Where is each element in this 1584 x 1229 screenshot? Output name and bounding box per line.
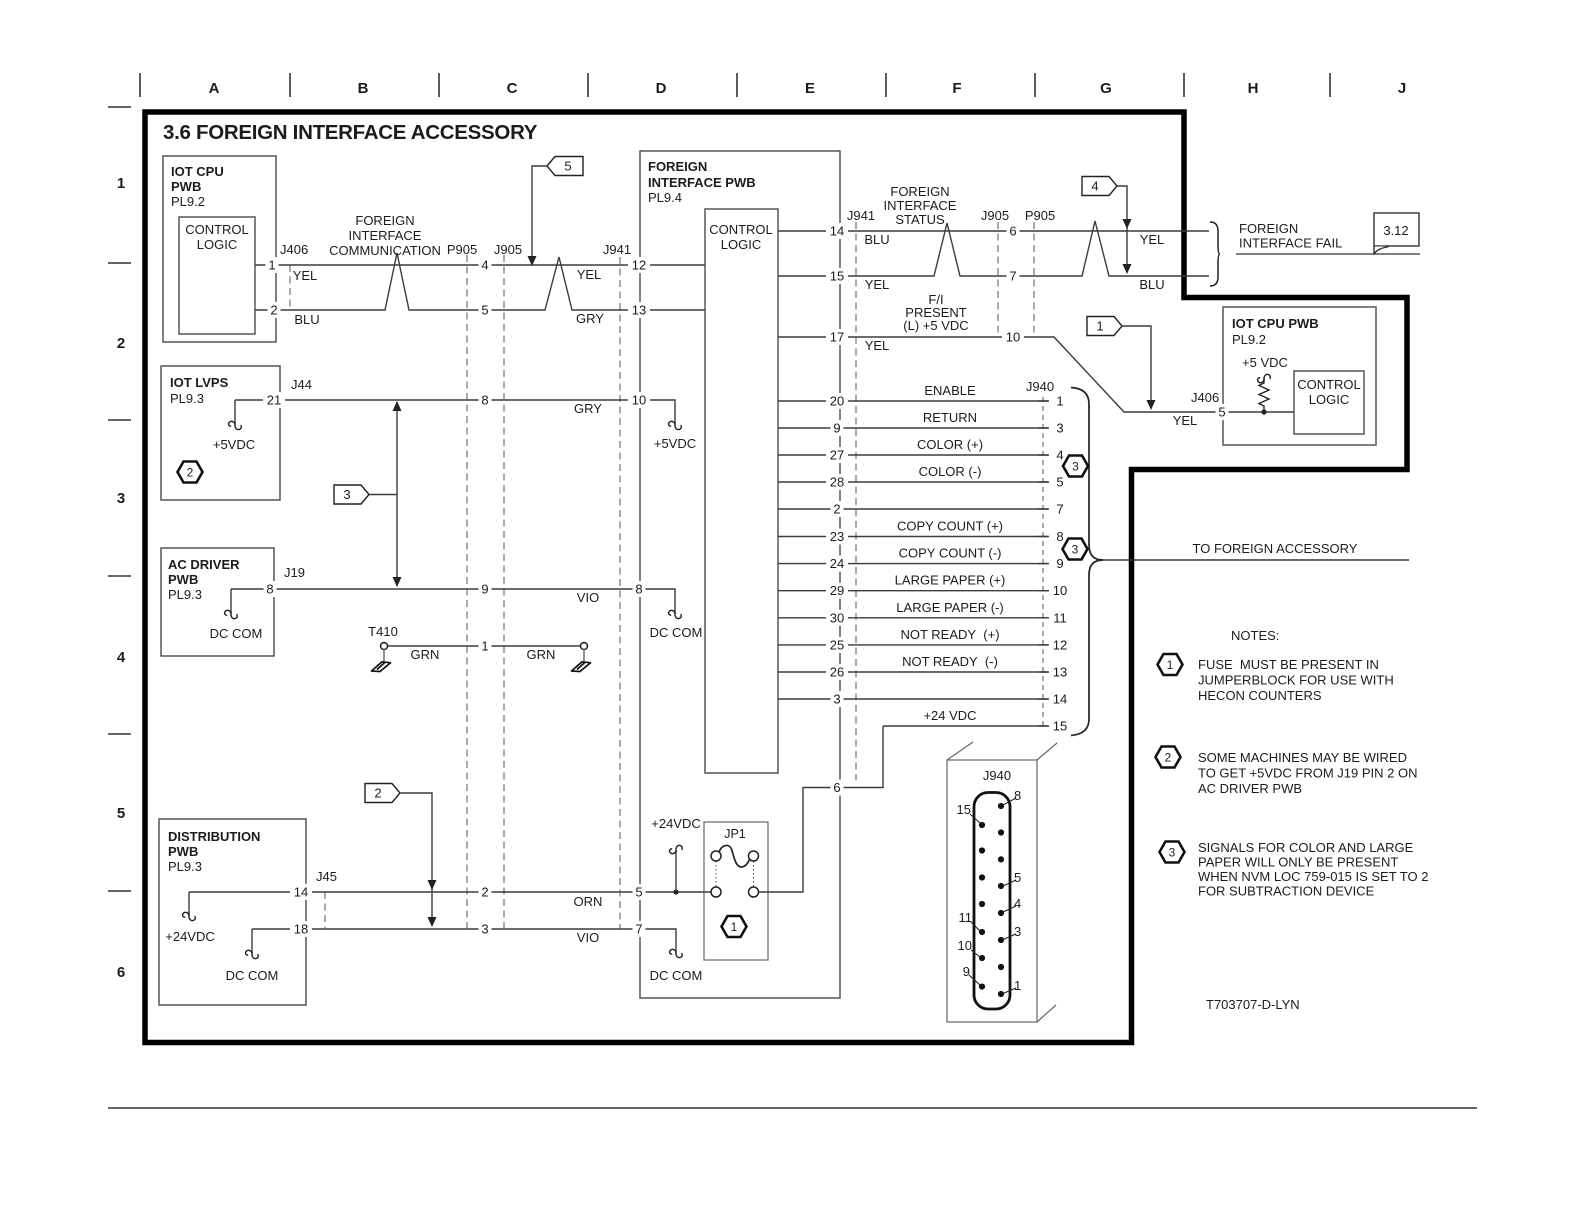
svg-text:GRN: GRN <box>527 647 556 662</box>
svg-text:1: 1 <box>1096 319 1103 334</box>
svg-text:INTERFACE FAIL: INTERFACE FAIL <box>1239 236 1342 251</box>
svg-text:WHEN NVM LOC 759-015 IS SET TO: WHEN NVM LOC 759-015 IS SET TO 2 <box>1198 869 1428 884</box>
svg-text:7: 7 <box>1009 269 1016 284</box>
svg-text:1: 1 <box>1167 658 1174 672</box>
svg-text:J941: J941 <box>603 242 631 257</box>
svg-text:+24 VDC: +24 VDC <box>923 708 976 723</box>
svg-text:2: 2 <box>187 466 194 480</box>
svg-text:J905: J905 <box>494 242 522 257</box>
svg-text:J941: J941 <box>847 208 875 223</box>
svg-text:24: 24 <box>830 556 844 571</box>
svg-text:+5VDC: +5VDC <box>213 437 255 452</box>
svg-text:BLU: BLU <box>1139 277 1164 292</box>
svg-text:3: 3 <box>1072 460 1079 474</box>
svg-text:PL9.3: PL9.3 <box>168 859 202 874</box>
svg-text:23: 23 <box>830 529 844 544</box>
svg-text:4: 4 <box>1091 179 1098 194</box>
svg-text:+5VDC: +5VDC <box>654 436 696 451</box>
svg-text:1: 1 <box>117 175 125 192</box>
svg-text:FOREIGN: FOREIGN <box>1239 221 1298 236</box>
svg-text:26: 26 <box>830 665 844 680</box>
svg-text:JP1: JP1 <box>724 827 746 841</box>
svg-text:CONTROL: CONTROL <box>709 222 773 237</box>
svg-text:BLU: BLU <box>864 232 889 247</box>
svg-text:SIGNALS FOR COLOR AND LARGE: SIGNALS FOR COLOR AND LARGE <box>1198 840 1414 855</box>
svg-text:J406: J406 <box>280 242 308 257</box>
svg-text:4: 4 <box>1056 448 1063 463</box>
svg-text:T703707-D-LYN: T703707-D-LYN <box>1206 997 1300 1012</box>
svg-text:J19: J19 <box>284 565 305 580</box>
svg-text:25: 25 <box>830 637 844 652</box>
svg-text:FOREIGN: FOREIGN <box>355 213 414 228</box>
svg-text:INTERFACE: INTERFACE <box>884 198 957 213</box>
svg-text:D: D <box>656 80 667 97</box>
svg-text:9: 9 <box>481 582 488 597</box>
svg-text:FUSE MUST BE PRESENT IN: FUSE MUST BE PRESENT IN <box>1198 657 1379 672</box>
svg-text:5: 5 <box>1014 870 1021 885</box>
svg-text:12: 12 <box>1053 637 1067 652</box>
svg-text:INTERFACE: INTERFACE <box>349 228 422 243</box>
svg-text:27: 27 <box>830 448 844 463</box>
svg-text:4: 4 <box>117 649 126 666</box>
svg-text:6: 6 <box>833 780 840 795</box>
svg-text:3: 3 <box>1014 924 1021 939</box>
svg-text:8: 8 <box>481 393 488 408</box>
svg-text:PL9.3: PL9.3 <box>170 391 204 406</box>
svg-text:18: 18 <box>294 922 308 937</box>
svg-text:NOT READY (+): NOT READY (+) <box>900 627 999 642</box>
svg-text:15: 15 <box>957 802 971 817</box>
svg-text:1: 1 <box>1056 394 1063 409</box>
svg-text:13: 13 <box>1053 665 1067 680</box>
svg-text:2: 2 <box>481 885 488 900</box>
svg-text:ENABLE: ENABLE <box>924 383 976 398</box>
svg-text:NOTES:: NOTES: <box>1231 628 1279 643</box>
svg-text:YEL: YEL <box>577 267 602 282</box>
svg-text:10: 10 <box>1053 583 1067 598</box>
svg-text:8: 8 <box>266 582 273 597</box>
svg-text:HECON COUNTERS: HECON COUNTERS <box>1198 688 1322 703</box>
svg-text:3: 3 <box>117 490 125 507</box>
svg-text:+24VDC: +24VDC <box>651 816 701 831</box>
svg-text:6: 6 <box>1009 224 1016 239</box>
svg-text:10: 10 <box>958 938 972 953</box>
svg-text:1: 1 <box>1014 978 1021 993</box>
svg-text:PL9.4: PL9.4 <box>648 190 682 205</box>
svg-text:LOGIC: LOGIC <box>197 237 237 252</box>
svg-text:E: E <box>805 80 815 97</box>
svg-text:4: 4 <box>1014 896 1021 911</box>
svg-text:J: J <box>1398 80 1406 97</box>
svg-text:2: 2 <box>374 786 381 801</box>
svg-text:COPY COUNT (+): COPY COUNT (+) <box>897 519 1003 534</box>
svg-text:PWB: PWB <box>168 844 198 859</box>
svg-text:P905: P905 <box>1025 208 1055 223</box>
svg-text:14: 14 <box>830 224 844 239</box>
svg-text:3: 3 <box>343 487 350 502</box>
svg-text:AC DRIVER PWB: AC DRIVER PWB <box>1198 781 1302 796</box>
svg-text:+5 VDC: +5 VDC <box>1242 355 1288 370</box>
svg-text:5: 5 <box>635 885 642 900</box>
svg-text:J905: J905 <box>981 208 1009 223</box>
svg-text:PL9.3: PL9.3 <box>168 587 202 602</box>
svg-text:15: 15 <box>830 269 844 284</box>
svg-text:13: 13 <box>632 303 646 318</box>
svg-text:VIO: VIO <box>577 930 599 945</box>
svg-text:9: 9 <box>833 421 840 436</box>
svg-text:8: 8 <box>635 582 642 597</box>
svg-text:28: 28 <box>830 475 844 490</box>
svg-text:4: 4 <box>481 258 488 273</box>
svg-text:VIO: VIO <box>577 590 599 605</box>
svg-text:TO FOREIGN ACCESSORY: TO FOREIGN ACCESSORY <box>1193 541 1358 556</box>
svg-text:21: 21 <box>267 393 281 408</box>
svg-text:NOT READY (-): NOT READY (-) <box>902 654 998 669</box>
svg-text:YEL: YEL <box>865 338 890 353</box>
svg-text:DISTRIBUTION: DISTRIBUTION <box>168 829 260 844</box>
svg-text:BLU: BLU <box>294 312 319 327</box>
svg-text:YEL: YEL <box>1173 413 1198 428</box>
svg-text:PL9.2: PL9.2 <box>171 194 205 209</box>
svg-text:H: H <box>1248 80 1259 97</box>
svg-text:AC DRIVER: AC DRIVER <box>168 557 240 572</box>
svg-text:C: C <box>507 80 518 97</box>
svg-text:PL9.2: PL9.2 <box>1232 332 1266 347</box>
svg-text:J44: J44 <box>291 377 312 392</box>
svg-text:2: 2 <box>1165 751 1172 765</box>
svg-text:7: 7 <box>635 922 642 937</box>
svg-text:LARGE PAPER (-): LARGE PAPER (-) <box>896 600 1003 615</box>
svg-text:YEL: YEL <box>865 277 890 292</box>
svg-text:IOT LVPS: IOT LVPS <box>170 375 229 390</box>
svg-text:SOME MACHINES MAY BE WIRED: SOME MACHINES MAY BE WIRED <box>1198 750 1407 765</box>
svg-text:A: A <box>209 80 220 97</box>
svg-text:DC COM: DC COM <box>650 968 703 983</box>
svg-text:LARGE PAPER (+): LARGE PAPER (+) <box>895 573 1006 588</box>
svg-text:T410: T410 <box>368 624 398 639</box>
svg-text:10: 10 <box>632 393 646 408</box>
svg-text:15: 15 <box>1053 719 1067 734</box>
svg-text:IOT CPU PWB: IOT CPU PWB <box>1232 316 1319 331</box>
svg-text:G: G <box>1100 80 1112 97</box>
svg-text:P905: P905 <box>447 242 477 257</box>
svg-text:17: 17 <box>830 330 844 345</box>
svg-text:J45: J45 <box>316 869 337 884</box>
svg-text:CONTROL: CONTROL <box>185 222 249 237</box>
svg-text:8: 8 <box>1014 788 1021 803</box>
svg-text:5: 5 <box>481 303 488 318</box>
svg-text:1: 1 <box>268 258 275 273</box>
svg-text:GRY: GRY <box>576 311 604 326</box>
svg-text:STATUS: STATUS <box>895 212 945 227</box>
svg-text:2: 2 <box>117 335 125 352</box>
svg-text:5: 5 <box>1056 475 1063 490</box>
svg-text:B: B <box>358 80 369 97</box>
svg-text:J940: J940 <box>983 768 1011 783</box>
svg-text:LOGIC: LOGIC <box>1309 392 1349 407</box>
svg-text:5: 5 <box>564 159 571 174</box>
svg-text:TO GET +5VDC FROM J19 PIN 2 ON: TO GET +5VDC FROM J19 PIN 2 ON <box>1198 766 1418 781</box>
svg-text:1: 1 <box>481 639 488 654</box>
svg-text:3: 3 <box>481 922 488 937</box>
svg-text:FOR SUBTRACTION DEVICE: FOR SUBTRACTION DEVICE <box>1198 884 1375 899</box>
svg-text:CONTROL: CONTROL <box>1297 377 1361 392</box>
svg-text:5: 5 <box>117 805 125 822</box>
svg-text:2: 2 <box>270 303 277 318</box>
svg-text:PWB: PWB <box>171 179 201 194</box>
svg-text:COMMUNICATION: COMMUNICATION <box>329 243 441 258</box>
svg-text:YEL: YEL <box>1140 232 1165 247</box>
svg-text:LOGIC: LOGIC <box>721 237 761 252</box>
svg-text:2: 2 <box>833 502 840 517</box>
svg-text:DC COM: DC COM <box>210 626 263 641</box>
svg-text:20: 20 <box>830 394 844 409</box>
svg-text:FOREIGN: FOREIGN <box>648 159 707 174</box>
svg-text:F: F <box>952 80 961 97</box>
svg-text:COLOR (-): COLOR (-) <box>919 464 982 479</box>
svg-text:3.12: 3.12 <box>1383 223 1408 238</box>
svg-text:PWB: PWB <box>168 572 198 587</box>
svg-text:3.6 FOREIGN INTERFACE ACCESSOR: 3.6 FOREIGN INTERFACE ACCESSORY <box>163 121 538 144</box>
svg-text:J406: J406 <box>1191 390 1219 405</box>
svg-text:7: 7 <box>1056 502 1063 517</box>
svg-text:30: 30 <box>830 610 844 625</box>
svg-text:9: 9 <box>1056 556 1063 571</box>
svg-text:6: 6 <box>117 964 125 981</box>
svg-text:YEL: YEL <box>293 268 318 283</box>
svg-text:IOT CPU: IOT CPU <box>171 164 224 179</box>
svg-text:3: 3 <box>1056 421 1063 436</box>
svg-text:GRY: GRY <box>574 401 602 416</box>
svg-text:5: 5 <box>1218 405 1225 420</box>
svg-text:FOREIGN: FOREIGN <box>890 184 949 199</box>
svg-text:12: 12 <box>632 258 646 273</box>
svg-text:10: 10 <box>1006 330 1020 345</box>
svg-text:+24VDC: +24VDC <box>165 929 215 944</box>
svg-text:COLOR (+): COLOR (+) <box>917 437 983 452</box>
svg-text:ORN: ORN <box>574 894 603 909</box>
svg-text:11: 11 <box>959 910 973 925</box>
svg-text:JUMPERBLOCK FOR USE WITH: JUMPERBLOCK FOR USE WITH <box>1198 673 1394 688</box>
svg-text:RETURN: RETURN <box>923 410 977 425</box>
svg-text:11: 11 <box>1053 610 1067 625</box>
svg-text:INTERFACE PWB: INTERFACE PWB <box>648 175 756 190</box>
svg-text:J940: J940 <box>1026 379 1054 394</box>
svg-text:8: 8 <box>1056 529 1063 544</box>
svg-text:(L) +5 VDC: (L) +5 VDC <box>903 318 968 333</box>
svg-text:1: 1 <box>731 920 738 934</box>
svg-text:DC COM: DC COM <box>650 625 703 640</box>
svg-text:14: 14 <box>294 885 308 900</box>
svg-text:3: 3 <box>1169 846 1176 860</box>
svg-text:3: 3 <box>1072 543 1079 557</box>
svg-text:14: 14 <box>1053 692 1067 707</box>
svg-text:COPY COUNT (-): COPY COUNT (-) <box>899 546 1002 561</box>
svg-text:DC COM: DC COM <box>226 968 279 983</box>
svg-text:GRN: GRN <box>411 647 440 662</box>
svg-text:3: 3 <box>833 692 840 707</box>
svg-text:PAPER WILL ONLY BE PRESENT: PAPER WILL ONLY BE PRESENT <box>1198 855 1398 870</box>
svg-text:9: 9 <box>963 964 970 979</box>
svg-text:29: 29 <box>830 583 844 598</box>
